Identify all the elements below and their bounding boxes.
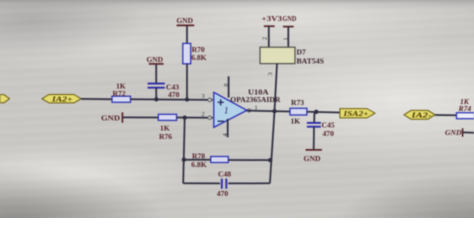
- svg-text:6.8K: 6.8K: [191, 160, 206, 169]
- junction R70/pin3 node: [185, 97, 189, 101]
- wire C43 to pin3 node: [155, 88, 157, 99]
- wire D7 pin 3 to output node: [267, 64, 277, 112]
- wire GND to R70: [186, 26, 188, 43]
- ground GND bottom right: [445, 128, 474, 137]
- svg-text:IA2+: IA2+: [51, 95, 73, 103]
- svg-text:BAT54S: BAT54S: [297, 56, 325, 65]
- svg-text:4: 4: [222, 133, 229, 136]
- wire R78 to right vertical: [228, 159, 270, 161]
- svg-text:R73: R73: [291, 98, 304, 107]
- svg-text:470: 470: [323, 129, 335, 138]
- wire R73 to ISA2+: [307, 111, 340, 114]
- wire C48 to right vertical: [228, 182, 270, 184]
- svg-text:OPA2365AIDR: OPA2365AIDR: [230, 95, 281, 104]
- svg-text:1K: 1K: [291, 116, 301, 125]
- port ISA2+: [340, 109, 375, 118]
- svg-text:2: 2: [261, 37, 268, 40]
- svg-text:GND: GND: [304, 154, 322, 163]
- svg-text:3: 3: [267, 72, 274, 75]
- svg-text:GND: GND: [283, 14, 297, 23]
- junction feedback node on pin2 wire: [183, 115, 187, 119]
- svg-text:1: 1: [224, 106, 229, 116]
- svg-text:3: 3: [202, 93, 205, 100]
- svg-text:IA2-: IA2-: [410, 112, 432, 120]
- port IA2+: [42, 95, 81, 104]
- svg-text:470: 470: [217, 189, 229, 198]
- partial port at left edge: [0, 95, 10, 103]
- diode D7 BAT54S: [260, 47, 324, 65]
- junction R78 left: [182, 158, 186, 162]
- capacitor C48: [217, 169, 231, 198]
- wire IA2+ to R72: [81, 98, 112, 100]
- ground GND above C43: [147, 55, 164, 64]
- pin 3 label and hotspot: [202, 93, 212, 102]
- svg-text:1: 1: [282, 37, 289, 40]
- capacitor C43: [148, 82, 180, 99]
- resistor R76: [158, 114, 176, 141]
- wire output to R73: [247, 110, 290, 113]
- svg-text:D7: D7: [297, 47, 306, 56]
- resistor R72: [112, 82, 131, 103]
- capacitor C45: [307, 121, 335, 139]
- pin 8 power line: [223, 76, 230, 97]
- svg-text:R74: R74: [458, 104, 472, 113]
- op-amp U10A: [214, 87, 281, 127]
- port IA2-: [404, 110, 435, 119]
- wire GND to R76: [123, 116, 158, 118]
- svg-text:R72: R72: [113, 89, 126, 98]
- pin 4 power line: [222, 119, 229, 137]
- svg-text:R76: R76: [159, 132, 172, 141]
- svg-text:C45: C45: [322, 121, 335, 130]
- svg-text:GND: GND: [101, 113, 121, 122]
- svg-text:6.8K: 6.8K: [191, 53, 206, 62]
- svg-text:GND: GND: [177, 16, 194, 25]
- resistor R78: [191, 151, 228, 168]
- svg-text:+3V3: +3V3: [262, 14, 283, 23]
- svg-text:C48: C48: [218, 169, 231, 178]
- wire +3V3 to D7 pin 2: [261, 26, 269, 47]
- ground GND above R70: [177, 16, 195, 25]
- wire IA2- to R74: [435, 114, 457, 116]
- wire R72 to op-amp pin 3: [131, 98, 213, 101]
- resistor R74: [457, 97, 474, 119]
- ground GND above D7: [283, 14, 297, 27]
- resistor R70: [183, 43, 207, 63]
- wire feedback right vertical: [270, 111, 275, 183]
- wire left node to R78: [184, 159, 211, 161]
- svg-text:470: 470: [168, 90, 180, 99]
- wire R76 to op-amp pin 2: [177, 117, 213, 119]
- wire GND to D7 pin 1: [282, 27, 289, 48]
- pin 1 output label and hotspot: [247, 104, 257, 112]
- junction C43/pin3 node: [154, 97, 158, 101]
- wire R70 to pin3 node: [186, 64, 188, 100]
- junction C45 node: [314, 110, 318, 114]
- wire GND to C43: [155, 65, 157, 84]
- svg-text:ISA2+: ISA2+: [342, 110, 368, 118]
- pin 2 label and hotspot: [202, 111, 212, 119]
- svg-text:GND: GND: [147, 55, 164, 64]
- resistor R73: [290, 98, 307, 126]
- wire C45 to GND: [313, 127, 315, 149]
- ground GND below C45: [304, 150, 322, 163]
- svg-text:2: 2: [202, 111, 205, 118]
- svg-text:GND: GND: [445, 128, 462, 137]
- wire feedback left vertical: [183, 118, 185, 184]
- junction output node: [272, 109, 276, 113]
- junction R78 right: [268, 158, 272, 162]
- ground GND left of R76: [101, 112, 122, 122]
- wire left vertical to C48: [183, 182, 220, 184]
- wire C45 node down: [313, 112, 315, 123]
- power +3V3: [262, 14, 283, 26]
- svg-text:8: 8: [223, 83, 230, 86]
